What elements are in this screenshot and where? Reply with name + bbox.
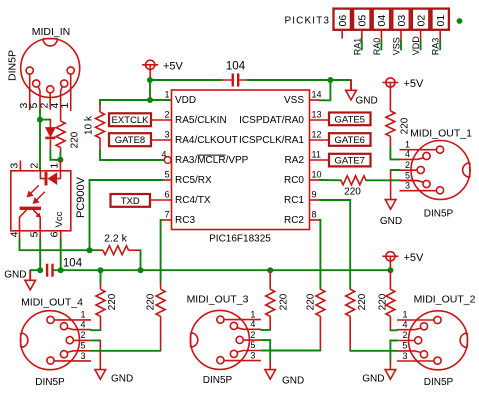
svg-text:RA4/CLKOUT: RA4/CLKOUT bbox=[175, 135, 238, 146]
supply +5V (top left) bbox=[142, 60, 158, 80]
wire EXTCLK to pin2 bbox=[151, 119, 172, 121]
net label GATE8 bbox=[109, 133, 151, 146]
svg-text:1: 1 bbox=[402, 310, 407, 320]
svg-text:DIN5P: DIN5P bbox=[7, 50, 19, 81]
wire opto pin4 Vout down bbox=[19, 231, 21, 239]
svg-text:5: 5 bbox=[250, 340, 255, 350]
wire cap to VSS/GND bbox=[247, 79, 351, 81]
svg-text:GATE7: GATE7 bbox=[335, 156, 365, 167]
svg-text:1: 1 bbox=[49, 163, 61, 169]
wire RC1 pin9 to MIDI_OUT_2 resistor bbox=[320, 200, 351, 288]
svg-text:6: 6 bbox=[49, 231, 61, 237]
svg-text:RA2: RA2 bbox=[285, 155, 305, 166]
wire MIDI_OUT_2 pin2 to GND bbox=[390, 341, 397, 361]
wire to VSS pin14 bbox=[320, 80, 331, 100]
wire VDD net bbox=[150, 99, 171, 101]
net label GATE5 bbox=[329, 113, 371, 126]
node VSS branch bbox=[327, 77, 333, 83]
svg-text:04: 04 bbox=[376, 15, 388, 27]
wire MIDI pin5 to diode bbox=[39, 110, 41, 120]
svg-text:RC0: RC0 bbox=[284, 175, 304, 186]
wire TXD to pin6 RC4/TX bbox=[150, 199, 172, 201]
wire MIDI_OUT_2 pin4 to 220 bbox=[390, 329, 397, 331]
svg-text:10: 10 bbox=[312, 170, 322, 180]
opto LED bbox=[40, 171, 44, 179]
wire MIDI_OUT_3 pin2 to GND bbox=[261, 340, 270, 360]
svg-text:MIDI_OUT_4: MIDI_OUT_4 bbox=[21, 297, 83, 309]
wire MIDI pin5 down to opto pin2 bbox=[39, 120, 41, 171]
svg-text:2: 2 bbox=[402, 330, 407, 340]
node RX/2.2k bbox=[87, 247, 93, 253]
ground GND (MIDI_OUT_3) bbox=[265, 370, 276, 380]
svg-text:RA0: RA0 bbox=[372, 38, 382, 56]
resistor 220 (MIDI_OUT_2 signal) bbox=[346, 289, 355, 316]
svg-text:RA3/MCLR/VPP: RA3/MCLR/VPP bbox=[175, 155, 249, 166]
net label GATE7 bbox=[329, 154, 371, 167]
svg-text:3: 3 bbox=[164, 130, 169, 140]
svg-text:220: 220 bbox=[279, 293, 290, 310]
svg-text:PICKIT3: PICKIT3 bbox=[285, 16, 331, 27]
svg-text:104: 104 bbox=[63, 258, 83, 270]
optocoupler U2 PC900V bbox=[11, 171, 71, 231]
svg-text:2: 2 bbox=[250, 330, 255, 340]
node resistor/diode/opto-anode bbox=[57, 157, 63, 163]
svg-text:GND: GND bbox=[282, 376, 304, 387]
svg-text:03: 03 bbox=[396, 15, 408, 27]
svg-text:ICSPCLK/RA1: ICSPCLK/RA1 bbox=[239, 135, 304, 146]
resistor 220 (MIDI_OUT_3 signal) bbox=[316, 289, 325, 316]
svg-text:13: 13 bbox=[312, 110, 322, 120]
svg-text:DIN5P: DIN5P bbox=[424, 209, 454, 220]
svg-text:4: 4 bbox=[161, 150, 166, 160]
wire RX net to pin5 RC5/RX bbox=[90, 180, 164, 250]
svg-text:RA1: RA1 bbox=[352, 38, 362, 56]
IC pin4 inversion bubble (MCLR) bbox=[164, 157, 171, 164]
svg-text:PIC16F18325: PIC16F18325 bbox=[209, 234, 271, 245]
svg-text:4: 4 bbox=[405, 149, 410, 159]
svg-text:1: 1 bbox=[164, 90, 169, 100]
wire MIDI_OUT_3 pin4 to 220 bbox=[261, 329, 270, 331]
svg-text:7: 7 bbox=[164, 210, 169, 220]
svg-text:4: 4 bbox=[80, 319, 85, 329]
svg-text:RC5/RX: RC5/RX bbox=[175, 175, 212, 186]
svg-text:4: 4 bbox=[8, 231, 20, 237]
svg-text:02: 02 bbox=[415, 15, 427, 27]
svg-text:VDD: VDD bbox=[175, 95, 196, 106]
ground GND (MIDI_OUT_4) bbox=[95, 370, 106, 380]
svg-text:5: 5 bbox=[405, 170, 410, 180]
svg-text:10 k: 10 k bbox=[84, 115, 95, 135]
svg-text:DIN5P: DIN5P bbox=[424, 377, 454, 388]
supply +5V (bottom right) bbox=[382, 252, 398, 271]
svg-text:3: 3 bbox=[402, 351, 407, 361]
resistor 2.2 k (RX pullup) bbox=[90, 249, 100, 251]
connector MIDI_OUT_2 (DIN5P) bbox=[397, 311, 468, 370]
svg-text:4: 4 bbox=[402, 319, 407, 329]
PICKIT3 pin stubs and net wires bbox=[341, 30, 343, 39]
opto light arrows bbox=[28, 185, 45, 203]
svg-text:5: 5 bbox=[164, 170, 169, 180]
svg-text:5: 5 bbox=[80, 341, 85, 351]
svg-text:MIDI_OUT_2: MIDI_OUT_2 bbox=[414, 294, 476, 306]
wire node to opto pin1 bbox=[59, 153, 61, 160]
svg-text:VSS: VSS bbox=[284, 95, 304, 106]
connector MIDI_IN (DIN5P) bbox=[21, 39, 80, 98]
wire MIDI_OUT_4 pin4 to 220 bbox=[91, 329, 101, 331]
svg-text:1: 1 bbox=[250, 309, 255, 319]
svg-text:RC1: RC1 bbox=[284, 195, 304, 206]
svg-text:5: 5 bbox=[402, 341, 407, 351]
svg-text:DIN5P: DIN5P bbox=[35, 377, 65, 388]
net label GATE6 bbox=[329, 133, 371, 146]
svg-text:3: 3 bbox=[405, 181, 410, 191]
svg-text:MIDI_IN: MIDI_IN bbox=[32, 26, 71, 38]
svg-text:2: 2 bbox=[80, 330, 85, 340]
wire MIDI_OUT_4 pin2 to GND bbox=[91, 339, 100, 341]
diode D1 (across opto LED) bbox=[49, 120, 51, 128]
node VDD/pullup bbox=[147, 97, 153, 103]
ground GND (MIDI_OUT_2) bbox=[385, 370, 396, 380]
svg-text:2: 2 bbox=[405, 160, 410, 170]
supply +5V (MIDI_OUT_1) bbox=[382, 78, 398, 111]
svg-text:1: 1 bbox=[405, 139, 410, 149]
svg-text:220: 220 bbox=[70, 131, 81, 148]
wire cap right plate to Vcc node bbox=[54, 269, 61, 271]
net label EXTCLK bbox=[109, 113, 151, 126]
wire MIDI_OUT_4 pin5 signal bbox=[91, 350, 161, 352]
wire +5V down to VDD bbox=[149, 80, 151, 100]
svg-text:2.2 k: 2.2 k bbox=[104, 233, 128, 245]
svg-text:6: 6 bbox=[164, 190, 169, 200]
svg-text:GND: GND bbox=[4, 270, 26, 281]
wire 220 to MIDI_OUT_1 pin4 bbox=[389, 136, 391, 147]
resistor 10 k (MCLR pullup) bbox=[99, 105, 101, 113]
wire MIDI_OUT_3 pin5 signal bbox=[261, 350, 320, 352]
resistor 220 (MIDI_OUT_3 +5V) bbox=[269, 270, 271, 289]
svg-text:RA3: RA3 bbox=[431, 38, 441, 56]
svg-text:220: 220 bbox=[107, 293, 118, 310]
wire opto pin6 Vcc down bbox=[60, 231, 62, 239]
svg-text:06: 06 bbox=[337, 15, 349, 27]
node +5V/cap bbox=[147, 77, 153, 83]
svg-text:220: 220 bbox=[146, 293, 157, 310]
svg-text:8: 8 bbox=[312, 210, 317, 220]
IC right pin stubs bbox=[310, 100, 320, 220]
wire 2.2k to +5V rail bbox=[140, 250, 142, 270]
svg-text:+5V: +5V bbox=[163, 61, 184, 73]
svg-text:GATE8: GATE8 bbox=[115, 135, 145, 146]
ground GND (top, VSS) bbox=[350, 80, 352, 90]
node rail dots bbox=[98, 267, 104, 273]
svg-text:3: 3 bbox=[80, 351, 85, 361]
wire RC2 pin8 to MIDI_OUT_3 resistor bbox=[319, 220, 322, 288]
svg-text:+5V: +5V bbox=[404, 252, 425, 264]
svg-text:VSS: VSS bbox=[392, 37, 402, 55]
capacitor 104 (VDD decoupling) bbox=[222, 79, 247, 81]
resistor 220 (MIDI_OUT_4 signal) bbox=[156, 289, 165, 316]
svg-text:14: 14 bbox=[312, 90, 322, 100]
svg-text:GATE6: GATE6 bbox=[335, 135, 365, 146]
svg-text:GND: GND bbox=[362, 374, 384, 385]
wire MIDI_OUT_2 pin5 signal bbox=[350, 350, 397, 352]
svg-text:220: 220 bbox=[344, 187, 361, 198]
svg-text:VDD: VDD bbox=[411, 36, 421, 56]
wire +5V rail bbox=[61, 269, 391, 271]
svg-text:GATE5: GATE5 bbox=[335, 114, 365, 125]
svg-text:1: 1 bbox=[59, 103, 71, 109]
ground GND (bottom left) bbox=[29, 270, 31, 280]
wire diode cathode to resistor output node bbox=[50, 150, 60, 160]
svg-text:01: 01 bbox=[435, 15, 447, 27]
svg-text:EXTCLK: EXTCLK bbox=[112, 115, 150, 126]
svg-text:220: 220 bbox=[357, 293, 368, 310]
wire 220 to MIDI_OUT_1 pin5 bbox=[366, 179, 400, 181]
svg-text:+5V: +5V bbox=[404, 78, 425, 90]
svg-text:TXD: TXD bbox=[121, 196, 140, 207]
svg-text:RC3: RC3 bbox=[175, 215, 195, 226]
opto phototransistor bbox=[20, 207, 41, 210]
svg-text:11: 11 bbox=[312, 150, 321, 160]
svg-text:RA5/CLKIN: RA5/CLKIN bbox=[175, 115, 227, 126]
ground GND (MIDI_OUT_1) bbox=[385, 200, 396, 210]
connector MIDI_OUT_1 (DIN5P) bbox=[400, 141, 471, 200]
svg-text:2: 2 bbox=[164, 110, 169, 120]
svg-text:Vcc: Vcc bbox=[54, 211, 65, 227]
resistor 220 (MIDI_OUT_2 +5V) bbox=[389, 270, 391, 289]
wire RC3 pin7 to MIDI_OUT_4 resistor bbox=[160, 220, 163, 282]
connector MIDI_OUT_4 (DIN5P) bbox=[21, 311, 92, 370]
resistor 220 (MIDI_OUT_1 +5V) bbox=[386, 111, 395, 136]
wire GATE8 to pin3 bbox=[151, 139, 172, 141]
opto pin3 stub bbox=[19, 161, 21, 171]
net label TXD bbox=[111, 194, 151, 207]
resistor 220 (RC0 to MIDI_OUT_1) bbox=[341, 176, 366, 185]
svg-text:DIN5P: DIN5P bbox=[203, 375, 233, 386]
svg-text:MIDI_OUT_3: MIDI_OUT_3 bbox=[187, 294, 249, 306]
svg-text:4: 4 bbox=[250, 319, 255, 329]
svg-text:3: 3 bbox=[250, 351, 255, 361]
svg-text:220: 220 bbox=[378, 293, 389, 310]
svg-text:220: 220 bbox=[305, 293, 316, 310]
svg-text:ICSPDAT/RA0: ICSPDAT/RA0 bbox=[239, 115, 304, 126]
wire 10k to MCLR pin4 bbox=[100, 150, 164, 160]
wire +5V to cap bbox=[150, 79, 222, 81]
svg-text:12: 12 bbox=[312, 130, 322, 140]
svg-text:104: 104 bbox=[226, 61, 246, 73]
svg-text:RC4/TX: RC4/TX bbox=[175, 195, 211, 206]
svg-text:PC900V: PC900V bbox=[75, 176, 87, 218]
svg-text:2: 2 bbox=[28, 163, 40, 169]
svg-text:9: 9 bbox=[312, 190, 317, 200]
wire MIDI_OUT_1 pin2 to GND bbox=[391, 169, 400, 171]
svg-text:RC2: RC2 bbox=[284, 215, 304, 226]
svg-text:220: 220 bbox=[400, 117, 411, 134]
wire opto pin5 to GND node bbox=[39, 231, 41, 239]
node (dot right of PICKIT3) bbox=[457, 18, 463, 24]
node GND/cap-left bbox=[37, 267, 43, 273]
IC left pin stubs bbox=[162, 180, 172, 220]
svg-text:05: 05 bbox=[357, 15, 369, 27]
wire RC0 pin10 bbox=[320, 179, 342, 181]
svg-text:GND: GND bbox=[111, 374, 133, 385]
connector MIDI_OUT_3 (DIN5P) bbox=[190, 310, 261, 369]
svg-text:3: 3 bbox=[8, 163, 20, 169]
svg-text:GND: GND bbox=[356, 95, 378, 106]
IC U1 PIC16F18325 bbox=[172, 90, 310, 230]
svg-text:5: 5 bbox=[28, 231, 40, 237]
svg-text:GND: GND bbox=[380, 216, 402, 227]
capacitor 104 (opto decoupling) bbox=[46, 264, 54, 277]
resistor 220 (MIDI_IN pin4) bbox=[56, 121, 65, 148]
svg-text:MIDI_OUT_1: MIDI_OUT_1 bbox=[410, 128, 472, 140]
wire to GND symbol bbox=[30, 269, 40, 271]
resistor 220 (MIDI_OUT_4 +5V) bbox=[100, 270, 102, 284]
node Vcc rail start bbox=[58, 267, 64, 273]
wire pullup branch bbox=[100, 100, 150, 105]
svg-text:1: 1 bbox=[80, 310, 85, 320]
